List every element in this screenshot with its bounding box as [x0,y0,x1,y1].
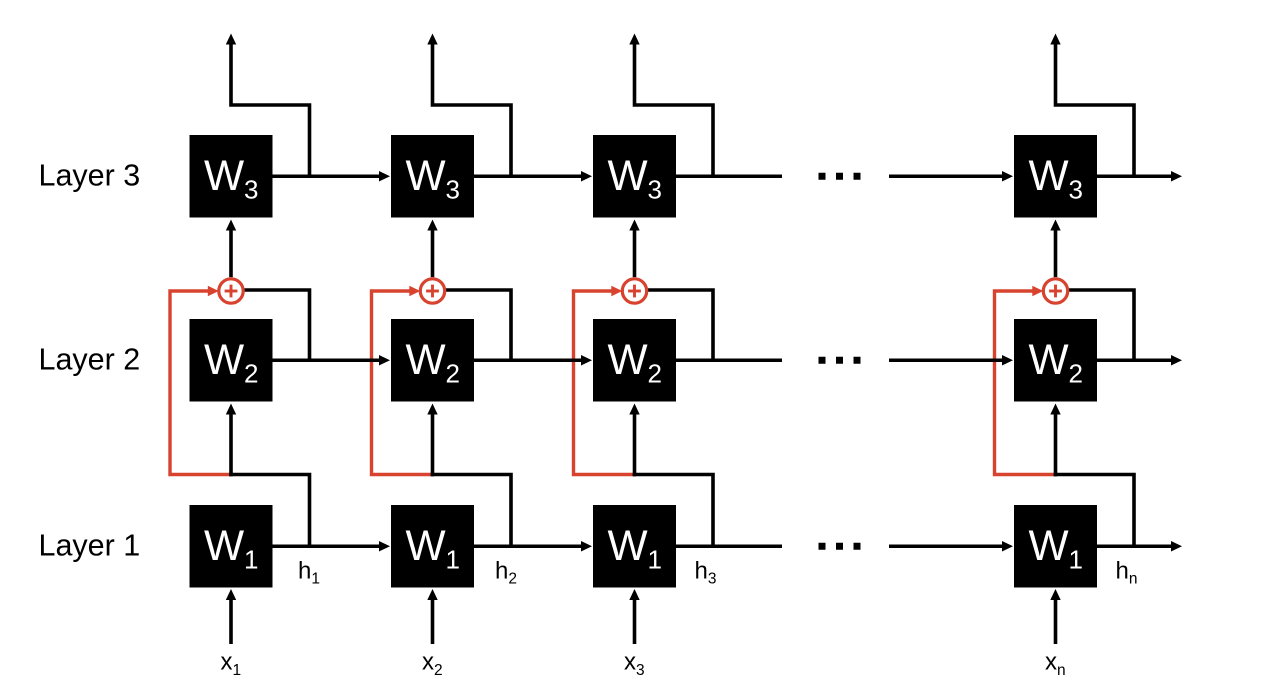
wire into W2 bottom column 3 [633,414,637,477]
box W2 column 1 [190,319,273,402]
wire layer2 col2 to col3 [474,358,582,362]
svg-text:Layer 1: Layer 1 [39,529,141,563]
box W1 column 2 [391,505,474,588]
wire adder to W3 column 4 [1054,230,1058,278]
svg-text:W: W [1029,523,1069,570]
wire layer3 col2 to col3 [474,174,582,178]
arrowhead top output column 1 [226,34,236,45]
arrowhead red into adder column 2 [409,286,420,296]
svg-text:3: 3 [244,175,258,205]
arrowhead into W2 bottom column 2 [427,404,437,415]
arrowhead layer1 col4 output [1171,541,1182,551]
box W3 column 2 [391,135,474,218]
wire layer2 output loop to adder column 1 [231,290,310,360]
svg-text:3: 3 [446,175,460,205]
svg-text:W: W [608,153,648,200]
wire layer1 output step to layer2 input column 2 [431,475,511,547]
svg-text:W: W [608,523,648,570]
svg-text:1: 1 [648,545,662,575]
arrowhead layer1 into col4 [1002,541,1013,551]
wire into W2 bottom column 1 [229,414,233,477]
arrowhead into W1 bottom column 2 [427,589,437,600]
wire layer2 dots to col4 [889,358,1003,362]
arrowhead into W1 bottom column 1 [226,589,236,600]
svg-text:W: W [1029,153,1069,200]
wire layer1 col2 to col3 [474,544,582,548]
box W3 column 4 [1014,135,1097,218]
wire layer1 output step to layer2 input column 4 [1054,475,1134,547]
arrowhead into W1 bottom column 3 [629,589,639,600]
arrowhead layer1 into col3 [581,541,592,551]
svg-text:W: W [1029,337,1069,384]
box W1 column 4 [1014,505,1097,588]
wire layer1 output step to layer2 input column 1 [229,475,309,547]
wire layer3 col1 to col2 [273,174,381,178]
wire layer3 dots to col4 [889,174,1003,178]
arrowhead into W2 bottom column 4 [1050,404,1060,415]
wire input x column 2 [431,600,435,645]
box W2 column 4 [1014,319,1097,402]
wire layer1 col4 output [1097,544,1173,548]
wire layer1 output step to layer2 input column 3 [633,475,713,547]
svg-text:x3: x3 [624,649,645,680]
wire layer2 col3 stub before dots [676,358,782,362]
arrowhead into W3 bottom column 4 [1050,220,1060,231]
wire input x column 4 [1054,600,1058,645]
wire layer2 col1 to col2 [273,358,381,362]
svg-text:W: W [406,153,446,200]
arrowhead top output column 4 [1050,34,1060,45]
arrowhead layer2 into col3 [581,355,592,365]
wire layer3 col3 stub before dots [676,174,782,178]
svg-text:2: 2 [244,359,258,389]
wire red skip connection column 2 [372,291,433,475]
svg-text:h1: h1 [298,558,320,588]
adder (+) node column 2 [420,279,444,303]
arrowhead layer1 into col2 [379,541,390,551]
svg-text:3: 3 [648,175,662,205]
wire red skip connection column 4 [995,291,1056,475]
svg-text:x1: x1 [221,649,242,680]
wire input x column 3 [633,600,637,645]
wire layer3 output step column 4 [1056,43,1135,177]
adder (+) node column 1 [219,279,243,303]
ellipsis dots layer1 [819,543,861,550]
adder (+) node column 4 [1043,279,1067,303]
adder (+) node column 3 [622,279,646,303]
arrowhead layer2 col4 output [1171,355,1182,365]
svg-text:hn: hn [1116,558,1138,588]
wire into W2 bottom column 2 [431,414,435,477]
wire layer3 col4 output [1097,174,1173,178]
wire layer2 col4 output [1097,358,1173,362]
wire red skip connection column 1 [170,291,231,475]
box W1 column 1 [190,505,273,588]
arrowhead layer2 into col4 [1002,355,1013,365]
box W3 column 3 [593,135,676,218]
wire adder to W3 column 2 [431,230,435,278]
wire adder to W3 column 1 [229,230,233,278]
box W3 column 1 [190,135,273,218]
svg-text:W: W [204,337,244,384]
svg-text:h3: h3 [695,558,717,588]
arrowhead into W3 bottom column 2 [427,220,437,231]
svg-text:W: W [204,523,244,570]
wire layer2 output loop to adder column 2 [433,290,512,360]
svg-text:1: 1 [446,545,460,575]
wire layer3 output step column 1 [231,43,310,177]
wire layer2 output loop to adder column 3 [635,290,714,360]
arrowhead layer3 into col2 [379,171,390,181]
ellipsis dots layer3 [819,173,861,180]
arrowhead layer2 into col2 [379,355,390,365]
wire layer3 output step column 2 [433,43,512,177]
arrowhead red into adder column 1 [208,286,219,296]
svg-text:x2: x2 [422,649,443,680]
arrowhead into W2 bottom column 3 [629,404,639,415]
svg-text:3: 3 [1069,175,1083,205]
wire red skip connection column 3 [574,291,635,475]
box W2 column 3 [593,319,676,402]
wire into W2 bottom column 4 [1054,414,1058,477]
wire layer1 dots to col4 [889,544,1003,548]
arrowhead top output column 3 [629,34,639,45]
svg-text:1: 1 [244,545,258,575]
svg-text:W: W [406,337,446,384]
svg-text:W: W [608,337,648,384]
box W1 column 3 [593,505,676,588]
svg-text:Layer 3: Layer 3 [39,159,141,193]
box W2 column 2 [391,319,474,402]
arrowhead into W2 bottom column 1 [226,404,236,415]
arrowhead layer3 into col3 [581,171,592,181]
wire layer2 output loop to adder column 4 [1056,290,1135,360]
svg-text:h2: h2 [495,558,517,588]
svg-text:2: 2 [1069,359,1083,389]
svg-text:W: W [204,153,244,200]
wire layer1 col1 to col2 [273,544,381,548]
arrowhead layer3 into col4 [1002,171,1013,181]
svg-text:W: W [406,523,446,570]
wire layer3 output step column 3 [635,43,714,177]
wire input x column 1 [229,600,233,645]
svg-text:xn: xn [1045,649,1066,680]
arrowhead into W1 bottom column 4 [1050,589,1060,600]
arrowhead layer3 col4 output [1171,171,1182,181]
arrowhead top output column 2 [427,34,437,45]
wire adder to W3 column 3 [633,230,637,278]
svg-text:2: 2 [648,359,662,389]
arrowhead red into adder column 4 [1032,286,1043,296]
svg-text:2: 2 [446,359,460,389]
wire layer1 col3 stub before dots [676,544,782,548]
svg-text:Layer 2: Layer 2 [39,343,141,377]
svg-text:1: 1 [1069,545,1083,575]
ellipsis dots layer2 [819,357,861,364]
arrowhead into W3 bottom column 1 [226,220,236,231]
arrowhead red into adder column 3 [611,286,622,296]
arrowhead into W3 bottom column 3 [629,220,639,231]
